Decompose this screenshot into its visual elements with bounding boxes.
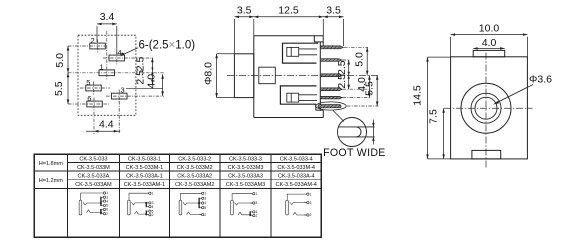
concentric circles: [461, 83, 511, 133]
svg-text:7.5: 7.5: [428, 109, 440, 124]
square window in body: [259, 67, 276, 84]
contact frame lower bracket: [280, 86, 316, 104]
lower contact pin head: [287, 93, 317, 102]
pad 4: [103, 48, 152, 65]
dimension 2.5/2.5 (right of side view, pin2-pin3-pin4): [347, 60, 350, 89]
svg-text:1: 1: [204, 192, 206, 196]
center lines: [444, 107, 533, 109]
svg-text:CK-3.5-033A2: CK-3.5-033A2: [177, 174, 212, 180]
svg-text:2: 2: [152, 213, 154, 217]
dimension 4.0 (right of side view, pin3-pin5): [368, 75, 371, 97]
svg-text:4.0: 4.0: [146, 74, 158, 89]
table part numbers row 3: [78, 174, 315, 180]
dimension 5.5 (right of side view, pin3-foot): [376, 75, 379, 106]
svg-text:H=1.2mm: H=1.2mm: [39, 178, 63, 184]
foot pin with oval: [316, 102, 347, 110]
svg-text:5.5: 5.5: [53, 81, 65, 96]
svg-text:2: 2: [91, 36, 95, 45]
svg-text:4: 4: [204, 201, 206, 205]
svg-text:2: 2: [310, 213, 312, 217]
dimension 10.0 (top of front view): [451, 33, 528, 57]
svg-text:3: 3: [204, 197, 206, 201]
svg-text:CK-3.5-033M: CK-3.5-033M: [77, 165, 110, 171]
table part numbers row 4: [75, 182, 317, 188]
dimension 4.0 (top tab of front view): [473, 47, 505, 50]
svg-text:14.5: 14.5: [412, 85, 424, 106]
label 6-(2.5x1.0) with leader to pad 4: [121, 40, 196, 57]
svg-text:12.5: 12.5: [278, 4, 299, 16]
table part numbers row 1: [79, 156, 312, 162]
svg-text:5: 5: [204, 206, 206, 210]
label phi3.6 with leader: [493, 74, 552, 105]
svg-text:CK-3.5-033AM2: CK-3.5-033AM2: [175, 182, 214, 188]
barrel (bushing) of jack: [234, 54, 253, 98]
extension dashes from pin tips: [343, 47, 379, 106]
svg-text:Φ8.0: Φ8.0: [203, 62, 215, 85]
dimension 5.0 (left of footprint): [67, 46, 70, 73]
svg-text:CK-3.5-033-3: CK-3.5-033-3: [229, 156, 262, 162]
svg-text:CK-3.5-033AM: CK-3.5-033AM: [75, 182, 112, 188]
pin 2 (hatched): [320, 59, 342, 62]
svg-text:CK-3.5-033M-4: CK-3.5-033M-4: [277, 165, 315, 171]
svg-text:4.4: 4.4: [99, 119, 114, 131]
schematic symbol cell 3 (CK-3.5-033-2): [179, 193, 202, 215]
foot detail circle: [333, 111, 375, 147]
svg-text:H=1.8mm: H=1.8mm: [39, 161, 63, 167]
svg-text:CK-3.5-033M-1: CK-3.5-033M-1: [126, 165, 164, 171]
svg-text:CK-3.5-033-4: CK-3.5-033-4: [280, 156, 313, 162]
svg-text:6: 6: [87, 94, 91, 103]
svg-text:CK-3.5-033M2: CK-3.5-033M2: [177, 165, 213, 171]
pin 4 (hatched): [320, 88, 342, 91]
schematic symbol cell 5 (CK-3.5-033-4): [286, 194, 308, 215]
dimension 2.5 / 2.5 (right of footprint): [126, 58, 163, 89]
pin 3 (hatched): [320, 74, 342, 77]
svg-text:4.0: 4.0: [482, 37, 497, 49]
center line: [227, 74, 379, 76]
svg-text:3: 3: [310, 201, 312, 205]
svg-text:1: 1: [152, 191, 154, 195]
dimension 3.5 / 12.5 / 3.5 (top of side view): [235, 16, 344, 54]
pad 2: [68, 36, 107, 53]
pin 5 (hatched): [320, 96, 342, 99]
dimension 4.4 (bottom of footprint): [86, 101, 120, 134]
svg-text:CK-3.5-033AM-4: CK-3.5-033AM-4: [276, 182, 317, 188]
jack body front view: [451, 50, 528, 158]
svg-text:3.5: 3.5: [237, 4, 252, 16]
svg-text:CK-3.5-033A: CK-3.5-033A: [78, 174, 110, 180]
upper contact pin head: [287, 47, 317, 56]
svg-text:4: 4: [152, 205, 154, 209]
jack body side view outline: [254, 36, 323, 118]
dimension 3.4 (top of footprint): [97, 23, 117, 54]
svg-text:FOOT WIDE: FOOT WIDE: [323, 147, 386, 159]
svg-text:Φ3.6: Φ3.6: [529, 74, 552, 86]
svg-text:2: 2: [204, 213, 206, 217]
svg-text:10.0: 10.0: [479, 22, 500, 34]
contact frame upper bracket: [283, 43, 319, 63]
svg-text:2.5: 2.5: [134, 70, 146, 85]
table part numbers row 2: [77, 165, 315, 171]
svg-text:1: 1: [100, 62, 104, 71]
svg-text:CK-3.5-033-1: CK-3.5-033-1: [128, 156, 161, 162]
schematic symbol cell 2 (CK-3.5-033-1): [128, 193, 150, 215]
svg-text:2: 2: [256, 214, 258, 218]
svg-text:2.5: 2.5: [134, 57, 146, 72]
dimension 4.0 (right of footprint): [161, 74, 164, 96]
footprint outline (dashed): [78, 35, 136, 115]
dimension 5.5 (left of footprint): [67, 73, 70, 104]
svg-text:5.0: 5.0: [354, 52, 366, 67]
foot width dimension ticks: [372, 120, 375, 145]
pad 6: [68, 94, 110, 134]
svg-text:2: 2: [106, 212, 108, 216]
svg-text:6-(2.5×1.0): 6-(2.5×1.0): [139, 40, 196, 52]
svg-text:1: 1: [256, 192, 258, 196]
svg-text:5.5: 5.5: [364, 81, 376, 96]
svg-text:CK-3.5-033-2: CK-3.5-033-2: [178, 156, 211, 162]
schematic symbol cell 1 (CK-3.5-033): [79, 193, 104, 215]
svg-text:1: 1: [310, 192, 312, 196]
pad 3: [106, 86, 164, 103]
dimension 7.5 (left of front view): [442, 108, 445, 159]
svg-text:CK-3.5-033A-4: CK-3.5-033A-4: [278, 174, 315, 180]
svg-text:2.5: 2.5: [336, 74, 348, 89]
svg-text:CK-3.5-033: CK-3.5-033: [79, 156, 107, 162]
schematic symbol cell 4 (CK-3.5-033-3): [231, 194, 254, 216]
svg-text:3: 3: [256, 201, 258, 205]
svg-text:3.5: 3.5: [326, 4, 341, 16]
svg-text:5.0: 5.0: [54, 53, 66, 68]
svg-text:3.4: 3.4: [100, 11, 115, 23]
svg-text:CK-3.5-033A-1: CK-3.5-033A-1: [126, 174, 163, 180]
pad 1: [68, 31, 164, 80]
dimension 5.0 (right of side view, pin1-pin3): [366, 47, 369, 75]
svg-text:CK-3.5-033A3: CK-3.5-033A3: [228, 174, 263, 180]
part number table grid: [34, 154, 321, 237]
svg-text:CK-3.5-033M3: CK-3.5-033M3: [228, 165, 264, 171]
dimension 14.5 (left of front view): [426, 57, 450, 159]
pad 5: [80, 78, 110, 95]
svg-text:CK-3.5-033AM3: CK-3.5-033AM3: [226, 182, 265, 188]
svg-text:2.5: 2.5: [336, 60, 348, 75]
pin 1 (hatched): [320, 46, 343, 49]
svg-text:CK-3.5-033AM-1: CK-3.5-033AM-1: [124, 182, 165, 188]
svg-text:3: 3: [121, 86, 125, 95]
svg-text:5: 5: [86, 78, 90, 87]
dimension phi8.0 (left of side view): [215, 54, 234, 98]
